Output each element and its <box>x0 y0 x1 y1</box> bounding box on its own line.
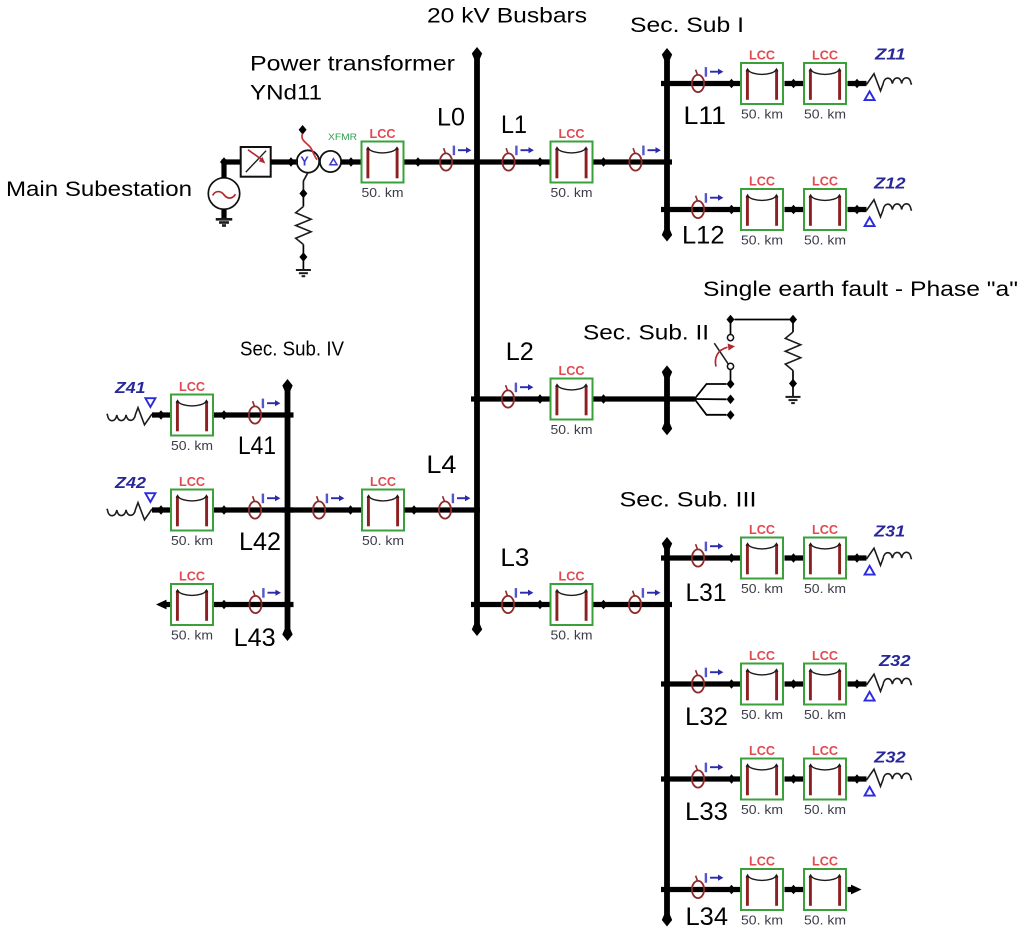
node switch-transformer junction <box>287 157 295 167</box>
node L3 junction before LCC <box>536 600 544 610</box>
ground source ground <box>216 219 233 225</box>
wire L12 busbar to LCC pair <box>661 207 740 212</box>
ground fault ground <box>786 397 801 403</box>
node node below grounding resistor <box>299 252 307 262</box>
label delta (secondary) <box>330 159 337 165</box>
node L11 load junction <box>853 79 861 89</box>
resistor R neutral grounding <box>296 207 311 245</box>
wire L33 busbar to LCC pair <box>661 776 740 781</box>
svg-text:LCC: LCC <box>749 523 775 537</box>
node L1 junction after LCC <box>600 157 608 167</box>
busbar Sec. Sub II busbar <box>662 365 672 435</box>
svg-text:L32: L32 <box>685 703 728 731</box>
node L32 mid junction <box>790 679 798 689</box>
wire L42 load to LCC <box>152 507 170 512</box>
LCC line block L2 <box>551 379 593 420</box>
node phase c node <box>727 410 735 420</box>
label I-> of P L1 <box>516 146 534 156</box>
node L43 junction after LCC <box>220 600 228 610</box>
svg-text:LCC: LCC <box>559 127 585 141</box>
switch SW1 (circuit breaker) <box>241 147 271 177</box>
LCC line block L43 (50 km) <box>171 584 213 625</box>
wire resistor to node <box>302 245 304 255</box>
svg-text:50. km: 50. km <box>741 914 783 928</box>
node L34 mid junction <box>790 885 798 895</box>
svg-text:Z11: Z11 <box>874 46 906 63</box>
load impedance Z31 (R-L to ground) <box>867 548 912 565</box>
svg-text:Z41: Z41 <box>114 380 146 397</box>
label I-> of P L11 <box>706 67 724 77</box>
label I-> of P L12 <box>706 193 724 203</box>
node L41 load junction <box>157 410 165 420</box>
svg-text:L1: L1 <box>501 111 527 139</box>
label I-> of P L4 <box>327 494 345 504</box>
svg-text:50. km: 50. km <box>551 423 593 437</box>
svg-text:50. km: 50. km <box>741 708 783 722</box>
svg-text:LCC: LCC <box>812 855 838 869</box>
svg-text:Z12: Z12 <box>873 175 906 192</box>
svg-text:50. km: 50. km <box>741 582 783 596</box>
load impedance Z32 (R-L to ground) <box>867 769 912 786</box>
LCC line block L31 first (50 km) <box>741 538 783 579</box>
LCC line block L12 second (50 km) <box>804 189 846 230</box>
svg-text:LCC: LCC <box>179 475 205 489</box>
LCC line block L32 first (50 km) <box>741 664 783 705</box>
LCC line block L33 first (50 km) <box>741 759 783 800</box>
svg-text:Z32: Z32 <box>873 749 906 766</box>
svg-text:L12: L12 <box>682 221 725 249</box>
busbar Sec. Sub III busbar <box>662 537 672 927</box>
svg-text:Y: Y <box>300 154 309 168</box>
current probe P L11 <box>692 70 704 92</box>
current probe P L4 end <box>439 496 451 518</box>
LCC line block L1 <box>551 142 593 183</box>
label I-> of P L3 end <box>643 588 661 598</box>
load impedance Z11 (R-L to ground) <box>867 74 912 91</box>
svg-text:XFMR: XFMR <box>328 132 357 143</box>
svg-text:LCC: LCC <box>749 855 775 869</box>
grounding triangle of Z11 <box>865 91 875 100</box>
load impedance Z42 (R-L to ground) <box>107 503 152 520</box>
label I-> of P L41 <box>263 399 281 409</box>
node L12 mid junction <box>790 205 798 215</box>
wire L31 between LCC blocks <box>785 555 804 560</box>
LCC line block L34 first (50 km) <box>741 869 783 910</box>
label I-> of P L1 end <box>643 146 661 156</box>
svg-text:YNd11: YNd11 <box>250 81 322 105</box>
node L42 junction after LCC <box>220 505 228 515</box>
svg-text:Sec. Sub. II: Sec. Sub. II <box>583 320 709 344</box>
node L31 junction before LCC <box>728 553 736 563</box>
svg-text:LCC: LCC <box>812 523 838 537</box>
svg-text:50. km: 50. km <box>551 186 593 200</box>
node transformer-LCC junction <box>347 157 355 167</box>
node neutral node above grounding resistor <box>299 189 307 199</box>
LCC line block L33 second (50 km) <box>804 759 846 800</box>
LCC line block L32 second (50 km) <box>804 664 846 705</box>
current probe P L34 <box>692 876 704 898</box>
ground transformer neutral ground <box>296 270 311 276</box>
wire 20kV busbar to LCC L2 <box>471 396 550 401</box>
node L2 junction before LCC <box>536 394 544 404</box>
wire node to ground <box>302 259 304 270</box>
wire splitter phase c <box>695 399 727 415</box>
node L12 junction before LCC <box>728 205 736 215</box>
current probe P L43 <box>249 591 261 613</box>
wire L32 LCC to load <box>848 681 867 686</box>
svg-text:LCC: LCC <box>812 649 838 663</box>
wire node to fault ground <box>792 386 794 396</box>
svg-text:L4: L4 <box>426 451 456 479</box>
wire L11 busbar to LCC pair <box>661 81 740 86</box>
svg-text:LCC: LCC <box>749 649 775 663</box>
LCC line block L4 <box>362 490 404 531</box>
svg-text:LCC: LCC <box>179 380 205 394</box>
svg-text:50. km: 50. km <box>804 708 846 722</box>
wire L34 between LCC blocks <box>785 887 804 892</box>
busbar Sec. Sub IV busbar <box>282 379 292 641</box>
wire LCC L2 to Sec.Sub II busbar and splitter <box>594 396 695 401</box>
wire L43 arrow to LCC <box>163 602 170 607</box>
svg-text:50. km: 50. km <box>804 914 846 928</box>
node fault resistor top node <box>789 315 797 325</box>
red phase curve of transformer <box>302 134 317 160</box>
node L12 load junction <box>853 205 861 215</box>
wire Sec.Sub IV busbar to LCC L4 <box>282 507 361 512</box>
wire L42 LCC to Sec.Sub IV busbar <box>214 507 294 512</box>
wire LCC L0 to LCC L1 through 20kV busbar <box>405 159 550 164</box>
wire L32 between LCC blocks <box>785 681 804 686</box>
node L42 load junction <box>157 505 165 515</box>
current probe P L3 <box>502 591 514 613</box>
resistor R fault <box>785 332 800 371</box>
label I-> of P L2 <box>516 383 534 393</box>
wire fault resistor to node <box>792 371 794 381</box>
current probe P L1 end <box>629 148 641 170</box>
svg-text:50. km: 50. km <box>171 534 213 548</box>
wire L31 LCC to load <box>848 555 867 560</box>
wire LCC L4 to 20kV busbar <box>405 507 481 512</box>
label I-> of P L33 <box>706 763 724 773</box>
wire L11 between LCC blocks <box>785 81 804 86</box>
svg-text:50. km: 50. km <box>741 234 783 248</box>
svg-text:LCC: LCC <box>749 175 775 189</box>
wire switch to transformer <box>271 159 298 164</box>
label I-> of P L4 end <box>453 494 471 504</box>
node L4 junction before LCC <box>347 505 355 515</box>
node L3 junction after LCC <box>600 600 608 610</box>
grounding triangle of Z32 <box>865 787 875 796</box>
current probe P L42 <box>249 496 261 518</box>
wire L33 between LCC blocks <box>785 776 804 781</box>
wire L11 LCC to load Z11 <box>848 81 867 86</box>
node L4 junction after LCC <box>410 505 418 515</box>
LCC line block L41 (50 km) <box>171 395 213 436</box>
LCC line block L3 <box>551 584 593 625</box>
svg-text:LCC: LCC <box>812 49 838 63</box>
svg-text:LCC: LCC <box>812 175 838 189</box>
current probe P L33 <box>692 765 704 787</box>
wire L43 LCC to Sec.Sub IV busbar <box>214 602 294 607</box>
grounding triangle of Z31 <box>865 566 875 575</box>
wire L31 busbar to LCC pair <box>661 555 740 560</box>
wire transformer neutral lead <box>303 173 308 191</box>
current probe P L12 <box>692 196 704 218</box>
svg-text:LCC: LCC <box>559 364 585 378</box>
label I-> of P L0 <box>454 146 472 156</box>
wire source node to switch SW1 <box>222 159 242 164</box>
load impedance Z12 (R-L to ground) <box>867 200 912 217</box>
svg-text:L34: L34 <box>686 903 729 931</box>
wire L33 LCC to load <box>848 776 867 781</box>
wire L34 busbar to LCC pair <box>661 887 740 892</box>
wire neutral to resistor <box>302 196 304 207</box>
svg-text:LCC: LCC <box>749 49 775 63</box>
load impedance Z41 (R-L to ground) <box>107 408 152 425</box>
svg-text:L11: L11 <box>684 102 727 130</box>
current probe P L1 <box>502 148 514 170</box>
svg-text:L33: L33 <box>685 798 728 826</box>
svg-text:50. km: 50. km <box>362 534 404 548</box>
open feeder arrow L34 <box>851 885 862 895</box>
wire L12 LCC to load Z12 <box>848 207 867 212</box>
wire L32 busbar to LCC pair <box>661 681 740 686</box>
svg-text:50. km: 50. km <box>804 108 846 122</box>
wire fault switch to fault resistor <box>735 319 790 321</box>
node phase a node (to fault switch) <box>727 379 735 389</box>
node L11 mid junction <box>790 79 798 89</box>
svg-text:50. km: 50. km <box>362 186 404 200</box>
svg-text:LCC: LCC <box>370 127 396 141</box>
svg-text:50. km: 50. km <box>171 629 213 643</box>
svg-text:LCC: LCC <box>749 744 775 758</box>
load impedance Z32 (R-L to ground) <box>867 674 912 691</box>
label I-> of P L32 <box>706 668 724 678</box>
label I-> of P L43 <box>263 588 281 598</box>
busbar 20 kV main busbar <box>472 47 482 636</box>
wire node to fault resistor <box>792 323 794 333</box>
LCC line block L12 first (50 km) <box>741 189 783 230</box>
current probe P L32 <box>692 670 704 692</box>
node L33 mid junction <box>790 774 798 784</box>
wire L34 open feeder stub <box>848 887 855 892</box>
node source output node <box>220 157 228 167</box>
svg-text:LCC: LCC <box>179 570 205 584</box>
wire LCC L3 to Sec.Sub III busbar <box>594 602 673 607</box>
svg-text:L31: L31 <box>686 579 727 607</box>
svg-text:Z31: Z31 <box>873 524 905 541</box>
node L41 junction after LCC <box>220 410 228 420</box>
node fault switch top node <box>727 315 735 325</box>
node L0 junction <box>414 157 422 167</box>
svg-text:LCC: LCC <box>370 475 396 489</box>
svg-text:50. km: 50. km <box>804 803 846 817</box>
label I-> of P L42 <box>263 494 281 504</box>
node transformer phase reference node <box>299 125 307 135</box>
AC source U1 (Main Substation) <box>208 178 239 209</box>
label I-> of P L31 <box>706 542 724 552</box>
current probe P L31 <box>692 544 704 566</box>
node L33 junction before LCC <box>728 774 736 784</box>
wire fault switch to top node <box>730 323 732 334</box>
svg-text:Sec. Sub I: Sec. Sub I <box>630 13 744 37</box>
busbar Sec. Sub I busbar <box>662 48 672 242</box>
label I-> of P L3 <box>516 588 534 598</box>
current probe P L4 <box>313 496 325 518</box>
current probe P L2 <box>502 385 514 407</box>
node L1 junction before LCC <box>536 157 544 167</box>
svg-text:Main Subestation: Main Subestation <box>6 177 192 201</box>
current probe P L3 end <box>629 591 641 613</box>
svg-text:50. km: 50. km <box>741 108 783 122</box>
node L32 load junction <box>853 679 861 689</box>
node L31 mid junction <box>790 553 798 563</box>
grounding triangle of Z32 <box>865 692 875 701</box>
wire L41 load to LCC <box>152 412 170 417</box>
node L34 junction before LCC <box>728 885 736 895</box>
label I-> of P L34 <box>706 873 724 883</box>
grounding triangle of Z12 <box>865 217 875 226</box>
wire splitter phase a <box>695 384 727 399</box>
grounding triangle of Z41 <box>145 398 155 407</box>
wire phase a to fault switch <box>730 370 732 381</box>
wire transformer to LCC L0 <box>341 159 361 164</box>
node L11 junction before LCC <box>728 79 736 89</box>
fault switch SWF (single earth fault) <box>714 335 735 370</box>
svg-text:L2: L2 <box>506 338 534 366</box>
svg-text:50. km: 50. km <box>804 582 846 596</box>
svg-text:LCC: LCC <box>812 744 838 758</box>
svg-text:50. km: 50. km <box>171 439 213 453</box>
power transformer T1 YNd11 (XFMR) <box>297 150 341 172</box>
svg-text:Sec. Sub. III: Sec. Sub. III <box>620 488 757 512</box>
LCC line block L42 (50 km) <box>171 490 213 531</box>
node L31 load junction <box>853 553 861 563</box>
wire source to ground stub <box>221 210 226 219</box>
svg-text:L42: L42 <box>239 528 281 556</box>
open feeder arrow L43 <box>156 600 167 610</box>
node L33 load junction <box>853 774 861 784</box>
current probe P L41 <box>249 401 261 423</box>
wire L12 between LCC blocks <box>785 207 804 212</box>
svg-text:50. km: 50. km <box>804 234 846 248</box>
wire 20kV busbar to LCC L3 <box>471 602 550 607</box>
LCC line block L34 second (50 km) <box>804 869 846 910</box>
wire LCC L1 to Sec.Sub I busbar <box>594 159 673 164</box>
svg-text:L3: L3 <box>500 544 529 572</box>
svg-text:Sec. Sub. IV: Sec. Sub. IV <box>240 338 344 361</box>
wire splitter phase b <box>695 398 727 400</box>
node fault resistor bottom node <box>789 379 797 389</box>
LCC line block L11 second (50 km) <box>804 63 846 104</box>
svg-text:Single earth fault - Phase "a": Single earth fault - Phase "a" <box>703 277 1018 301</box>
LCC line block L31 second (50 km) <box>804 538 846 579</box>
svg-text:Z42: Z42 <box>114 475 147 492</box>
svg-text:L43: L43 <box>234 624 276 652</box>
grounding triangle of Z42 <box>145 493 155 502</box>
svg-text:50. km: 50. km <box>551 629 593 643</box>
svg-text:L0: L0 <box>437 103 465 131</box>
LCC line block L0 feeder (power transformer output) <box>362 142 404 183</box>
svg-text:Z32: Z32 <box>878 653 911 670</box>
LCC line block L11 first (50 km) <box>741 63 783 104</box>
node L2 junction after LCC <box>600 394 608 404</box>
svg-text:Power transformer: Power transformer <box>250 52 455 76</box>
svg-text:LCC: LCC <box>559 570 585 584</box>
wire source to main node (vertical) <box>221 160 226 178</box>
wire L41 LCC to Sec.Sub IV busbar <box>214 412 294 417</box>
current probe P L0 <box>440 148 452 170</box>
svg-text:50. km: 50. km <box>741 803 783 817</box>
node L32 junction before LCC <box>728 679 736 689</box>
svg-text:L41: L41 <box>238 432 276 460</box>
svg-text:20 kV Busbars: 20 kV Busbars <box>427 3 587 27</box>
node phase b node <box>727 395 735 405</box>
